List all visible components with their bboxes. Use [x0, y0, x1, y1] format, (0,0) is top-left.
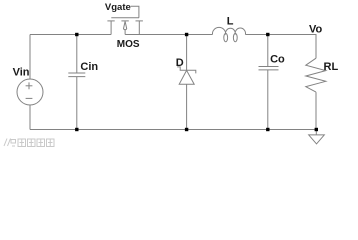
wire top rail inductor to output corner — [245, 35, 316, 59]
transistor MOS source lead — [138, 21, 140, 35]
diode D schottky cathode bar — [177, 67, 196, 74]
source Vin plus sign — [26, 82, 33, 98]
inductor L winding — [212, 27, 245, 34]
wire bottom rail — [30, 129, 316, 131]
inductor L loop 2 — [233, 33, 237, 41]
voltage source Vin circle — [17, 79, 43, 105]
svg-text:Vo: Vo — [309, 24, 323, 36]
wire diode D top lead — [186, 35, 188, 71]
junction dot Co bottom — [266, 128, 269, 131]
junction dot Cin bottom — [75, 128, 78, 131]
resistor RL zigzag — [306, 58, 326, 92]
transistor MOS drain contact bar — [107, 20, 114, 22]
junction dot D bottom — [185, 128, 188, 131]
wire RL bottom lead — [315, 92, 317, 129]
transistor MOS body lead — [124, 30, 126, 35]
diode D triangle — [179, 70, 194, 84]
inductor L loop 1 — [224, 33, 228, 41]
svg-text:RL: RL — [324, 61, 339, 73]
junction dot Cin top — [75, 33, 78, 36]
junction dot D top — [185, 33, 188, 36]
source Vin minus sign — [26, 97, 33, 99]
watermark — [4, 139, 54, 147]
svg-text:Vin: Vin — [13, 67, 30, 79]
wire left vertical to Vin source — [29, 35, 31, 80]
svg-text:Vgate: Vgate — [105, 2, 131, 13]
wire Co bottom lead — [267, 70, 269, 130]
transistor MOS drain lead — [110, 21, 112, 35]
wire Vin source bottom to bottom rail — [29, 105, 31, 129]
svg-text:MOS: MOS — [117, 39, 140, 50]
wire diode D bottom lead — [186, 84, 188, 129]
wire Cin bottom lead — [76, 77, 78, 130]
wire Cin top lead — [76, 35, 78, 74]
wire top left horizontal — [30, 34, 111, 36]
wire ground stub — [315, 130, 317, 135]
junction dot ground — [315, 128, 318, 131]
capacitor Co plates — [259, 66, 279, 68]
svg-text:L: L — [227, 16, 234, 28]
junction dot Co top — [266, 33, 269, 36]
svg-text:Cin: Cin — [80, 61, 98, 73]
transistor MOS gate plate — [111, 17, 139, 19]
wire Co top lead — [267, 35, 269, 67]
transistor MOS source contact bar — [136, 20, 143, 22]
wire Vgate to gate — [131, 6, 139, 18]
wire top rail MOS to inductor — [125, 34, 212, 36]
transistor MOS body contact bar — [121, 20, 128, 22]
svg-text:Co: Co — [270, 53, 285, 65]
transistor MOS body arrow — [124, 21, 127, 29]
ground symbol triangle — [309, 135, 325, 144]
svg-text:D: D — [176, 57, 184, 69]
capacitor Cin plates — [68, 72, 85, 74]
